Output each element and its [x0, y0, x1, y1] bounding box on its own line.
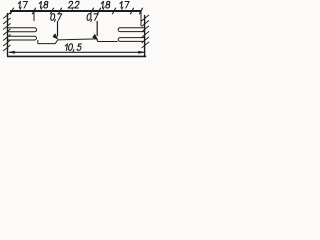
right floor: [98, 41, 118, 43]
label 0,7 (left, below line): [50, 14, 62, 22]
arrowhead left 0.7 leader: [52, 33, 58, 39]
left wall: [7, 13, 9, 57]
extension line x=34: [33, 12, 35, 21]
background: [0, 0, 153, 59]
label 2,2: [68, 1, 80, 9]
left floor: [38, 40, 58, 44]
tick x=34: [32, 8, 35, 14]
tick x=92: [90, 8, 93, 14]
tick x=99: [97, 8, 100, 14]
arrowhead bottom-right: [138, 51, 145, 54]
leader line left 0.7: [57, 21, 59, 37]
tick x=114: [112, 8, 115, 14]
plate R1 (upper right leaf, rounded end): [118, 28, 144, 32]
arrowhead right 0.7 leader: [92, 34, 98, 40]
top dimension line: [10, 10, 141, 12]
label 1,7 (right): [119, 1, 129, 9]
plate L2 (lower left leaf, rounded end): [8, 36, 36, 40]
arrowhead bottom-left: [8, 51, 15, 54]
right step down: [96, 39, 99, 42]
plate R2 (lower right leaf, rounded end): [118, 38, 144, 42]
label 1,8 (left): [38, 1, 48, 9]
left wall hatching: [3, 12, 10, 51]
leader line right 0.7: [96, 21, 98, 36]
tick x=141 (right end): [139, 8, 142, 14]
tick x=12: [10, 8, 13, 14]
tick x=60: [58, 8, 61, 14]
bottom edge of part: [7, 55, 146, 57]
label 1,8 (right): [100, 1, 110, 9]
label 1,7 (left): [17, 1, 27, 9]
plate L1 (upper left leaf, rounded end): [8, 28, 37, 32]
extension line x=141 (right edge): [140, 11, 142, 26]
pedestal top surface: [58, 39, 97, 40]
bottom dimension line 10.5: [9, 51, 144, 53]
right wall hatching: [142, 15, 149, 48]
label 10,5 (bottom): [64, 44, 81, 52]
tick x=132: [130, 8, 133, 14]
label 0,7 (right, below line): [86, 14, 98, 22]
tick x=52: [50, 8, 53, 14]
right wall: [144, 15, 146, 57]
left step down to floor: [37, 40, 39, 44]
